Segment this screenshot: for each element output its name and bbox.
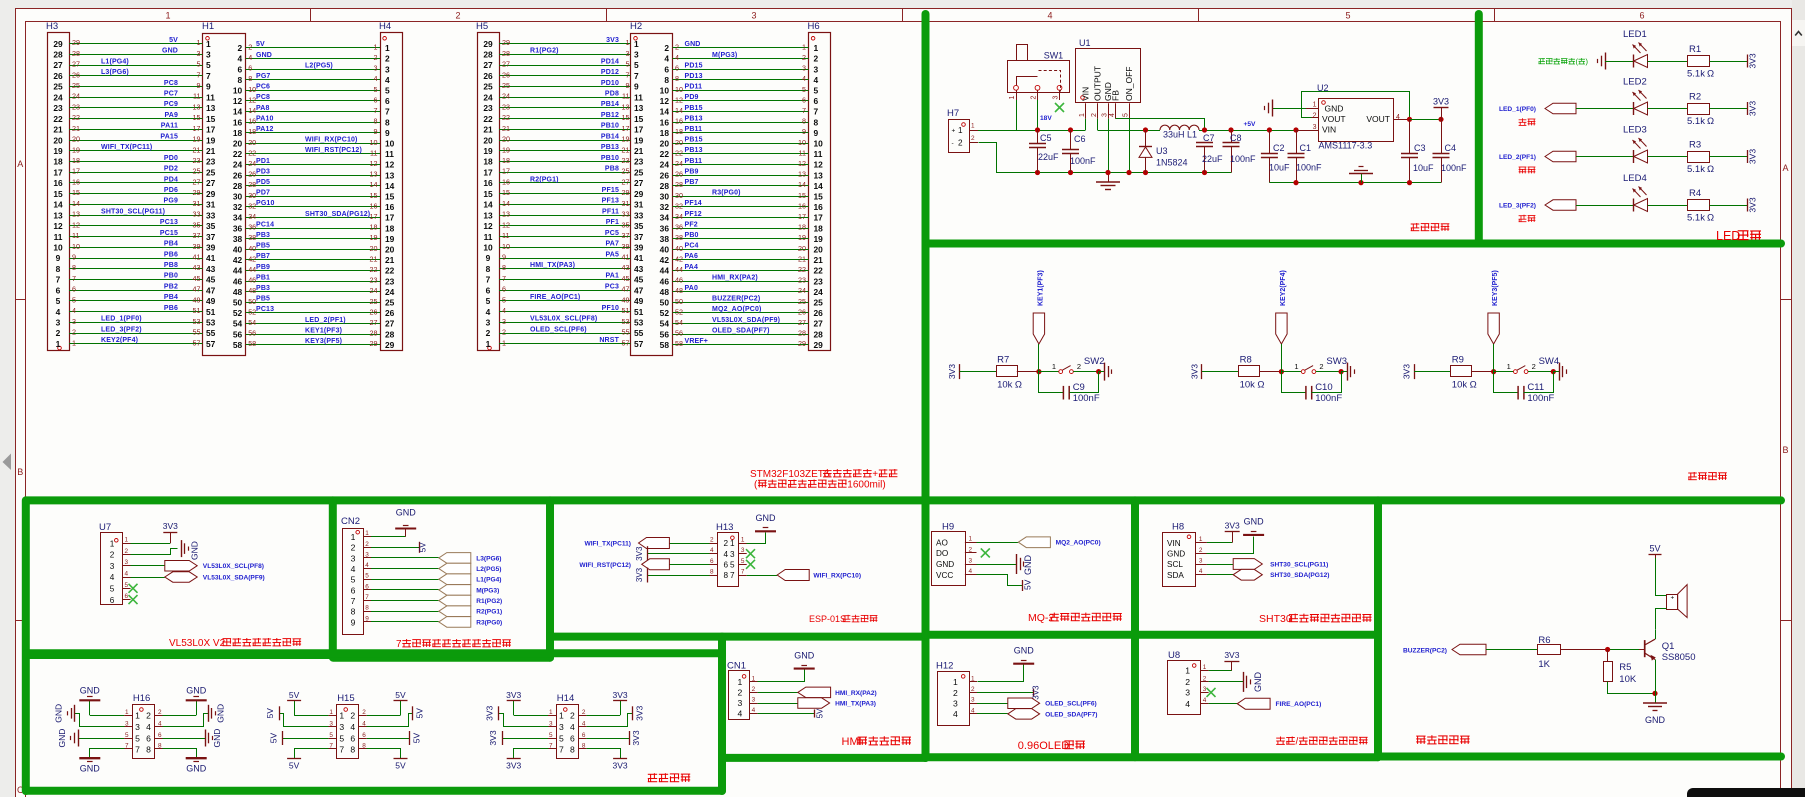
svg-text:2: 2 <box>486 328 491 338</box>
svg-text:H6: H6 <box>808 21 820 32</box>
svg-text:7: 7 <box>802 106 806 115</box>
svg-text:33uH L1: 33uH L1 <box>1163 130 1197 140</box>
svg-text:PC4: PC4 <box>685 243 699 250</box>
svg-text:1: 1 <box>197 38 201 47</box>
svg-text:31: 31 <box>622 199 630 208</box>
svg-text:21: 21 <box>193 145 201 154</box>
svg-text:100nF: 100nF <box>1315 393 1342 404</box>
svg-text:14: 14 <box>660 107 670 117</box>
svg-text:GND: GND <box>1023 555 1033 576</box>
svg-text:1: 1 <box>351 532 356 542</box>
svg-text:3V3: 3V3 <box>1225 520 1240 530</box>
svg-text:21: 21 <box>72 124 80 133</box>
svg-text:34: 34 <box>675 212 683 221</box>
svg-text:6: 6 <box>374 95 378 104</box>
svg-text:3: 3 <box>197 49 201 58</box>
svg-text:3V3: 3V3 <box>1224 650 1239 660</box>
svg-text:2: 2 <box>1077 362 1081 371</box>
svg-text:5V: 5V <box>411 732 421 743</box>
svg-text:3: 3 <box>135 722 140 732</box>
svg-text:18: 18 <box>675 127 683 136</box>
svg-text:20: 20 <box>483 135 493 145</box>
svg-text:26: 26 <box>248 170 256 179</box>
svg-text:C2: C2 <box>1273 143 1285 153</box>
svg-text:52: 52 <box>660 308 670 318</box>
svg-text:LED_2(PF1): LED_2(PF1) <box>305 317 346 324</box>
svg-text:45: 45 <box>193 274 201 283</box>
svg-text:1600mil): 1600mil) <box>847 480 885 491</box>
svg-text:1: 1 <box>730 539 735 548</box>
svg-text:PD9: PD9 <box>685 94 699 101</box>
svg-text:29: 29 <box>370 339 378 348</box>
svg-text:26: 26 <box>483 71 493 81</box>
svg-text:10: 10 <box>385 139 395 149</box>
svg-text:PC6: PC6 <box>256 84 270 91</box>
svg-text:42: 42 <box>660 255 670 265</box>
svg-text:WIFI_TX(PC11): WIFI_TX(PC11) <box>101 144 152 151</box>
svg-text:U8: U8 <box>1168 650 1180 661</box>
svg-text:34: 34 <box>248 212 256 221</box>
svg-text:15: 15 <box>206 114 216 124</box>
svg-text:9: 9 <box>802 127 806 136</box>
svg-text:31: 31 <box>634 200 644 210</box>
svg-text:10k: 10k <box>1240 380 1256 391</box>
svg-text:4: 4 <box>72 306 76 315</box>
svg-text:OLED_SDA(PF7): OLED_SDA(PF7) <box>712 327 770 334</box>
svg-text:5.1k: 5.1k <box>1687 164 1705 175</box>
svg-text:14: 14 <box>385 181 395 191</box>
svg-text:38: 38 <box>675 233 683 242</box>
svg-text:27: 27 <box>483 60 493 70</box>
svg-text:25: 25 <box>206 167 216 177</box>
svg-text:SW3: SW3 <box>1326 356 1347 367</box>
svg-text:24: 24 <box>660 160 670 170</box>
svg-text:20: 20 <box>814 245 824 255</box>
svg-text:40: 40 <box>248 244 256 253</box>
svg-text:28: 28 <box>502 49 510 58</box>
svg-text:VL53L0X_SDA(PF9): VL53L0X_SDA(PF9) <box>203 575 265 582</box>
svg-text:19: 19 <box>798 233 806 242</box>
svg-text:19: 19 <box>814 234 824 244</box>
svg-text:11: 11 <box>193 92 200 101</box>
svg-text:GND: GND <box>54 704 64 723</box>
svg-text:21: 21 <box>206 146 216 156</box>
svg-text:1: 1 <box>72 338 76 347</box>
svg-text:38: 38 <box>660 234 670 244</box>
svg-text:PB14: PB14 <box>601 133 619 140</box>
svg-text:6: 6 <box>664 64 669 74</box>
svg-text:13: 13 <box>622 102 630 111</box>
svg-text:15: 15 <box>72 188 80 197</box>
svg-text:4: 4 <box>365 562 369 569</box>
svg-text:3: 3 <box>738 698 743 708</box>
svg-text:29: 29 <box>622 188 630 197</box>
svg-text:14: 14 <box>814 181 824 191</box>
svg-text:22uF: 22uF <box>1202 154 1223 164</box>
svg-text:25: 25 <box>483 82 493 92</box>
svg-text:27: 27 <box>622 178 630 187</box>
svg-text:Ω: Ω <box>1707 69 1714 80</box>
svg-text:37: 37 <box>206 232 216 242</box>
svg-text:KEY3(PF5): KEY3(PF5) <box>305 338 342 345</box>
svg-text:100nF: 100nF <box>1527 393 1554 404</box>
svg-text:12: 12 <box>248 95 256 104</box>
svg-text:47: 47 <box>622 285 630 294</box>
svg-text:17: 17 <box>798 212 806 221</box>
svg-text:1: 1 <box>953 677 958 687</box>
svg-text:SW1: SW1 <box>1044 51 1064 61</box>
svg-text:8: 8 <box>248 74 252 83</box>
svg-text:25: 25 <box>53 82 63 92</box>
svg-text:ON_OFF: ON_OFF <box>1124 67 1134 101</box>
svg-text:H16: H16 <box>133 693 150 704</box>
svg-text:U7: U7 <box>99 522 111 533</box>
svg-text:18: 18 <box>72 156 80 165</box>
svg-text:PA6: PA6 <box>685 253 699 260</box>
svg-text:3: 3 <box>486 318 491 328</box>
svg-text:CN1: CN1 <box>727 661 746 672</box>
svg-text:17: 17 <box>193 124 201 133</box>
svg-text:3: 3 <box>971 697 975 704</box>
svg-text:16: 16 <box>483 178 493 188</box>
svg-text:26: 26 <box>233 170 243 180</box>
svg-text:7: 7 <box>351 596 356 606</box>
svg-text:19: 19 <box>634 135 644 145</box>
svg-text:45: 45 <box>206 275 216 285</box>
svg-text:PA0: PA0 <box>685 285 699 292</box>
svg-text:LED_1(PF0): LED_1(PF0) <box>1499 106 1536 113</box>
svg-text:5: 5 <box>385 86 390 96</box>
svg-text:GND: GND <box>756 513 777 523</box>
svg-text:12: 12 <box>502 220 510 229</box>
svg-text:L3(PG6): L3(PG6) <box>476 555 501 562</box>
svg-text:L1(PG4): L1(PG4) <box>101 58 129 65</box>
svg-text:AMS1117-3.3: AMS1117-3.3 <box>1319 141 1373 151</box>
svg-text:6: 6 <box>1639 11 1644 21</box>
svg-text:1: 1 <box>802 42 806 51</box>
svg-text:53: 53 <box>634 318 644 328</box>
svg-text:2: 2 <box>814 54 819 64</box>
svg-text:22: 22 <box>660 149 670 159</box>
svg-text:58: 58 <box>233 340 243 350</box>
svg-text:13: 13 <box>72 210 80 219</box>
svg-text:R1(PG2): R1(PG2) <box>530 48 559 55</box>
svg-text:7: 7 <box>486 275 491 285</box>
svg-text:5: 5 <box>374 85 378 94</box>
svg-text:29: 29 <box>72 38 80 47</box>
svg-text:3V3: 3V3 <box>506 761 521 771</box>
svg-text:43: 43 <box>193 263 201 272</box>
svg-text:5: 5 <box>351 575 356 585</box>
svg-text:3: 3 <box>969 558 973 565</box>
svg-text:R2: R2 <box>1689 92 1701 103</box>
svg-text:8: 8 <box>158 743 162 750</box>
svg-text:3: 3 <box>559 722 564 732</box>
svg-text:58: 58 <box>675 339 683 348</box>
svg-text:5V: 5V <box>289 690 300 700</box>
svg-text:4: 4 <box>374 74 378 83</box>
svg-text:40: 40 <box>660 245 670 255</box>
svg-text:55: 55 <box>634 328 644 338</box>
svg-text:M(PG3): M(PG3) <box>712 52 737 59</box>
svg-text:24: 24 <box>385 287 395 297</box>
svg-text:SW4: SW4 <box>1539 356 1560 367</box>
svg-text:5: 5 <box>206 60 211 70</box>
svg-text:14: 14 <box>233 107 243 117</box>
svg-text:1: 1 <box>1507 362 1511 371</box>
svg-text:PB13: PB13 <box>685 115 703 122</box>
svg-text:PB13: PB13 <box>601 144 619 151</box>
svg-text:24: 24 <box>370 286 378 295</box>
svg-text:PD3: PD3 <box>256 168 270 175</box>
svg-text:4: 4 <box>1203 697 1207 704</box>
svg-text:PB4: PB4 <box>164 294 178 301</box>
svg-text:3: 3 <box>351 553 356 563</box>
svg-text:C4: C4 <box>1445 143 1457 153</box>
svg-text:PA7: PA7 <box>605 241 619 248</box>
svg-text:1: 1 <box>206 39 211 49</box>
svg-text:PC13: PC13 <box>160 219 178 226</box>
svg-text:C5: C5 <box>1040 133 1052 143</box>
svg-text:28: 28 <box>675 180 683 189</box>
svg-text:18: 18 <box>370 223 378 232</box>
svg-text:PB8: PB8 <box>164 262 178 269</box>
svg-text:19: 19 <box>53 146 63 156</box>
svg-text:R7: R7 <box>997 354 1009 365</box>
svg-text:57: 57 <box>634 339 644 349</box>
svg-text:GND: GND <box>80 685 101 695</box>
svg-text:1: 1 <box>971 675 975 682</box>
svg-text:52: 52 <box>675 307 683 316</box>
svg-text:49: 49 <box>206 296 216 306</box>
svg-text:PD14: PD14 <box>601 58 619 65</box>
svg-text:-: - <box>952 140 954 147</box>
svg-text:31: 31 <box>193 199 201 208</box>
svg-text:B: B <box>17 467 23 477</box>
svg-text:23: 23 <box>53 103 63 113</box>
svg-text:29: 29 <box>502 38 510 47</box>
svg-text:41: 41 <box>193 253 201 262</box>
svg-text:10: 10 <box>483 243 493 253</box>
svg-text:26: 26 <box>72 70 80 79</box>
svg-text:5: 5 <box>125 732 129 739</box>
svg-text:4: 4 <box>110 573 115 582</box>
svg-text:GND: GND <box>80 764 101 774</box>
svg-text:1: 1 <box>329 709 333 716</box>
svg-text:17: 17 <box>53 167 63 177</box>
svg-text:PB3: PB3 <box>256 232 270 239</box>
svg-text:PB14: PB14 <box>601 101 619 108</box>
svg-text:1: 1 <box>1009 96 1016 100</box>
svg-text:36: 36 <box>675 223 683 232</box>
svg-text:55: 55 <box>622 328 630 337</box>
svg-text:16: 16 <box>233 117 243 127</box>
svg-text:22: 22 <box>675 148 683 157</box>
svg-text:PD12: PD12 <box>601 69 619 76</box>
svg-text:6: 6 <box>56 285 61 295</box>
svg-text:5: 5 <box>502 295 506 304</box>
svg-text:5: 5 <box>802 85 806 94</box>
svg-text:PB3: PB3 <box>256 285 270 292</box>
svg-text:22uF: 22uF <box>1038 152 1059 162</box>
svg-text:5.1k: 5.1k <box>1687 213 1705 224</box>
svg-text:SW2: SW2 <box>1084 356 1105 367</box>
svg-text:3: 3 <box>634 50 639 60</box>
svg-text:PC8: PC8 <box>256 94 270 101</box>
svg-text:5: 5 <box>634 60 639 70</box>
svg-text:4: 4 <box>971 707 975 714</box>
svg-text:GND: GND <box>936 560 954 569</box>
svg-text:2: 2 <box>350 711 355 721</box>
svg-text:15: 15 <box>370 191 378 200</box>
svg-text:WIFI_TX(PC11): WIFI_TX(PC11) <box>584 541 631 548</box>
svg-text:44: 44 <box>675 265 683 274</box>
svg-text:5: 5 <box>626 60 630 69</box>
svg-text:20: 20 <box>53 135 63 145</box>
svg-text:8: 8 <box>362 743 366 750</box>
svg-text:PB5: PB5 <box>256 243 270 250</box>
svg-text:3: 3 <box>1313 124 1317 131</box>
svg-text:35: 35 <box>206 221 216 231</box>
svg-text:20: 20 <box>233 139 243 149</box>
svg-text:GND: GND <box>162 48 178 55</box>
svg-text:4: 4 <box>724 550 729 559</box>
svg-text:18: 18 <box>248 127 256 136</box>
svg-text:4: 4 <box>56 307 61 317</box>
svg-text:9: 9 <box>385 128 390 138</box>
svg-text:6: 6 <box>802 95 806 104</box>
svg-text:3: 3 <box>549 721 553 728</box>
svg-text:PD10: PD10 <box>601 80 619 87</box>
svg-text:6: 6 <box>72 285 76 294</box>
svg-text:PB2: PB2 <box>164 284 178 291</box>
svg-text:6: 6 <box>710 558 714 565</box>
svg-text:2: 2 <box>675 42 679 51</box>
svg-text:VREF+: VREF+ <box>685 338 709 345</box>
svg-text:32: 32 <box>248 201 256 210</box>
svg-text:3: 3 <box>730 550 735 559</box>
svg-text:12: 12 <box>483 221 493 231</box>
svg-text:3: 3 <box>110 562 115 571</box>
svg-text:46: 46 <box>233 276 243 286</box>
svg-text:3: 3 <box>802 64 806 73</box>
svg-text:23: 23 <box>370 276 378 285</box>
svg-text:PD13: PD13 <box>685 73 703 80</box>
svg-text:11: 11 <box>634 92 643 102</box>
svg-text:HMI_RX(PA2): HMI_RX(PA2) <box>712 274 758 281</box>
svg-text:PB11: PB11 <box>685 126 703 133</box>
svg-text:PB8: PB8 <box>605 166 619 173</box>
svg-text:28: 28 <box>798 329 806 338</box>
svg-text:2: 2 <box>72 328 76 337</box>
svg-text:22: 22 <box>248 148 256 157</box>
svg-text:PB15: PB15 <box>685 105 703 112</box>
svg-text:50: 50 <box>675 297 683 306</box>
svg-text:7: 7 <box>559 744 564 754</box>
svg-text:PF2: PF2 <box>685 221 698 228</box>
svg-text:11: 11 <box>385 149 394 159</box>
svg-text:5: 5 <box>197 60 201 69</box>
svg-text:2: 2 <box>385 54 390 64</box>
svg-text:29: 29 <box>483 39 493 49</box>
svg-text:1: 1 <box>738 677 743 687</box>
svg-text:PC8: PC8 <box>164 80 178 87</box>
svg-text:6: 6 <box>248 64 252 73</box>
svg-text:3V3: 3V3 <box>506 690 521 700</box>
svg-text:C8: C8 <box>1230 133 1242 143</box>
svg-text:5: 5 <box>365 573 369 580</box>
svg-text:100nF: 100nF <box>1441 163 1467 173</box>
svg-text:9: 9 <box>814 128 819 138</box>
svg-text:9: 9 <box>365 615 369 622</box>
svg-text:OUTPUT: OUTPUT <box>1093 66 1103 101</box>
svg-text:PA8: PA8 <box>256 105 270 112</box>
svg-text:8: 8 <box>802 117 806 126</box>
svg-text:FIRE_AO(PC1): FIRE_AO(PC1) <box>1276 701 1322 708</box>
svg-text:3V3: 3V3 <box>613 690 628 700</box>
svg-text:7: 7 <box>549 743 553 750</box>
svg-text:1: 1 <box>385 43 390 53</box>
svg-text:PB7: PB7 <box>685 179 699 186</box>
svg-text:PA10: PA10 <box>256 115 274 122</box>
svg-text:53: 53 <box>622 317 630 326</box>
svg-text:LED_3(PF2): LED_3(PF2) <box>101 326 142 333</box>
svg-text:15: 15 <box>385 192 395 202</box>
svg-text:U1: U1 <box>1079 38 1091 48</box>
svg-text:6: 6 <box>675 64 679 73</box>
svg-text:3: 3 <box>741 547 745 554</box>
svg-text:PA15: PA15 <box>160 133 178 140</box>
svg-text:23: 23 <box>798 276 806 285</box>
svg-text:7: 7 <box>396 639 402 650</box>
svg-text:11: 11 <box>370 148 377 157</box>
svg-text:23: 23 <box>502 102 510 111</box>
svg-text:SS8050: SS8050 <box>1662 652 1696 663</box>
svg-text:LED2: LED2 <box>1623 77 1647 88</box>
svg-text:58: 58 <box>660 340 670 350</box>
svg-text:4: 4 <box>664 54 669 64</box>
svg-text:5: 5 <box>329 732 333 739</box>
svg-text:5V: 5V <box>816 708 825 718</box>
svg-text:PA4: PA4 <box>685 264 699 271</box>
svg-text:7: 7 <box>339 744 344 754</box>
svg-text:20: 20 <box>248 138 256 147</box>
svg-text:6: 6 <box>351 585 356 595</box>
svg-text:Ω: Ω <box>1707 164 1714 175</box>
svg-text:3: 3 <box>56 318 61 328</box>
svg-text:6: 6 <box>350 733 355 743</box>
svg-text:H4: H4 <box>379 21 391 32</box>
svg-text:3: 3 <box>72 317 76 326</box>
svg-text:PD7: PD7 <box>256 190 270 197</box>
svg-text:H12: H12 <box>936 661 953 672</box>
svg-text:PA5: PA5 <box>605 251 619 258</box>
svg-text:PD15: PD15 <box>685 62 703 69</box>
svg-text:15: 15 <box>53 189 63 199</box>
svg-text:12: 12 <box>385 160 395 170</box>
svg-text:17: 17 <box>206 125 216 135</box>
svg-text:VCC: VCC <box>936 571 953 580</box>
svg-text:H14: H14 <box>557 693 574 704</box>
svg-text:6: 6 <box>365 583 369 590</box>
svg-text:24: 24 <box>502 92 510 101</box>
svg-text:3: 3 <box>1102 113 1109 117</box>
svg-text:2: 2 <box>238 43 243 53</box>
svg-text:2: 2 <box>351 543 356 553</box>
svg-text:2: 2 <box>582 709 586 716</box>
svg-text:43: 43 <box>206 264 216 274</box>
svg-text:22: 22 <box>233 149 243 159</box>
